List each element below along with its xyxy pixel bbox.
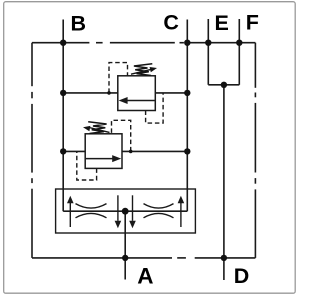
node D port	[221, 255, 227, 261]
relief valve U2 body	[85, 134, 122, 169]
relief valve U1 spring	[134, 64, 152, 76]
node F port	[236, 40, 242, 46]
venturi restrictor left	[76, 204, 107, 218]
node C port	[184, 40, 190, 46]
relief valve U2 pilot line (dashed)	[112, 120, 131, 151]
envelope boundary bottom (chain line)	[32, 257, 255, 259]
node U2 outlet tee	[184, 148, 190, 154]
flow divider down arrow right-center	[129, 195, 136, 228]
wire port F vertical	[238, 19, 240, 85]
wire valve U1 inlet	[63, 92, 118, 94]
wire valve U2 outlet	[122, 150, 188, 152]
wire port B vertical	[62, 20, 64, 212]
wire E-F bottom link	[208, 84, 239, 86]
wire valve U1 outlet	[155, 92, 187, 94]
relief valve U2 flow arrow	[86, 155, 122, 162]
relief valve U1 pilot line (dashed)	[109, 63, 128, 93]
flow divider up arrow right	[178, 196, 185, 227]
node E-F junction	[221, 82, 227, 88]
envelope boundary right (chain line)	[254, 43, 256, 258]
envelope boundary left (chain line)	[31, 43, 33, 258]
wire port C vertical	[186, 20, 188, 212]
relief valve U1 adjust arrow	[131, 67, 157, 74]
wire port D vertical	[223, 85, 225, 280]
svg-text:A: A	[137, 264, 153, 289]
flow divider down arrow left-center	[115, 195, 122, 228]
svg-text:D: D	[234, 264, 250, 288]
envelope boundary top (chain line)	[32, 42, 255, 44]
flow divider body	[56, 189, 196, 233]
relief valve U1 body	[118, 76, 156, 111]
svg-text:E: E	[215, 11, 229, 35]
relief valve U1 flow arrow	[119, 97, 155, 104]
flow divider up arrow left	[67, 196, 74, 227]
node E port	[205, 40, 211, 46]
wire port A vertical	[124, 211, 126, 279]
svg-text:C: C	[163, 11, 179, 35]
node U1 inlet tee	[60, 90, 66, 96]
relief valve U2 adjust arrow	[83, 126, 110, 132]
node U2 pilot tap	[129, 150, 133, 154]
svg-text:F: F	[246, 11, 259, 35]
node U1 pilot tap	[107, 91, 111, 95]
relief valve U2 drain line (dashed)	[77, 151, 97, 180]
node A port	[122, 255, 128, 261]
node U1 outlet tee	[184, 90, 190, 96]
venturi restrictor right	[144, 204, 174, 218]
node B port	[60, 40, 66, 46]
relief valve U1 drain line (dashed)	[146, 93, 164, 123]
wire port E vertical	[207, 19, 209, 85]
wire divider internal bus	[63, 210, 187, 212]
wire valve U2 inlet	[63, 150, 85, 152]
node U2 inlet tee	[60, 148, 66, 154]
node divider center	[122, 208, 129, 215]
svg-text:B: B	[71, 12, 87, 36]
relief valve U2 spring	[88, 122, 106, 134]
